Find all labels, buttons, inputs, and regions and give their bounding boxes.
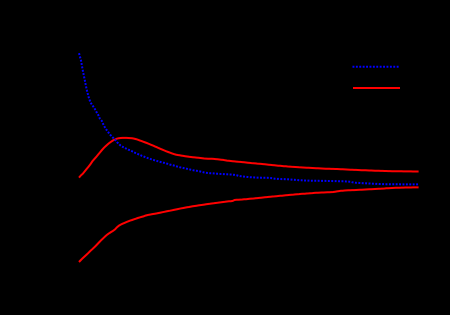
legend sample: blue dotted line <box>353 66 401 68</box>
legend sample: red solid line <box>353 87 400 89</box>
blue dotted curve (steep decay) <box>79 53 419 184</box>
upper red solid curve (peaked, converging right) <box>79 138 419 178</box>
lower red solid curve (rising from bottom left) <box>79 187 419 262</box>
